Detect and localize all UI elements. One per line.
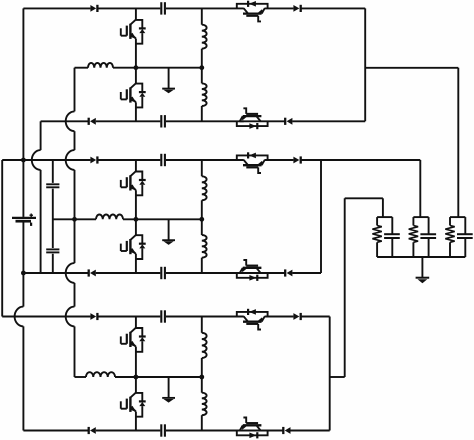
wire cell1 top rail end — [301, 7, 366, 9]
diode D1c (bottom rail left) — [90, 118, 96, 125]
resistor-capacitor branch 2 frame — [413, 216, 428, 218]
capacitor C3t (series, top rail) — [160, 310, 162, 322]
transistor Q22 (lower IGBT) — [130, 235, 136, 240]
wire cell3 mid left — [75, 376, 87, 378]
wire cell1 output tap horizontal — [365, 67, 458, 69]
capacitor C2t (series, top rail) — [160, 154, 162, 166]
wire cell2 IGBT leg middle — [135, 190, 137, 219]
transistor Q3b (horizontal IGBT, bottom rail) — [237, 431, 268, 436]
capacitor C1b (series, bottom rail) — [160, 115, 162, 127]
inductor L32 (lower) — [202, 393, 207, 416]
wire cell3 mid — [115, 376, 202, 378]
wire cell1 bottom rail end — [292, 120, 365, 122]
wire input cap column middle — [52, 189, 54, 248]
wire cell2 output tap vertical — [419, 160, 421, 217]
diode D2d (bottom rail right) — [287, 270, 293, 277]
inductor L3f (filter, horizontal) — [86, 372, 115, 377]
wire cell2 bottom rail end — [292, 272, 321, 274]
wire cell3 inductor leg upper lead — [201, 317, 203, 333]
transistor Q31 (upper IGBT) — [130, 328, 136, 333]
diode D1d (bottom rail right) — [287, 118, 293, 125]
diode D2c (bottom rail left) — [90, 270, 96, 277]
diode D3b (top rail right) — [293, 313, 299, 320]
wire DC bus (battery - down) — [22, 222, 24, 273]
wire cell3 bottom rail — [96, 430, 161, 432]
wire cell1 top rail — [97, 7, 160, 9]
wire input cap column upper — [52, 160, 54, 183]
ground cell1 — [168, 68, 170, 89]
transistor Q11 (upper IGBT) — [130, 20, 136, 25]
wire cell3 output tap vertical — [344, 198, 346, 377]
wire hop over cell3 top rail — [15, 307, 24, 327]
wire cell1 inductor leg lower lead — [201, 106, 203, 121]
wire cell1 inductor leg upper lead — [201, 8, 203, 24]
inductor L2f (filter, horizontal) — [96, 215, 123, 220]
capacitor Co3 plates — [457, 233, 473, 235]
wire cell3 top rail mid — [166, 316, 244, 318]
wire cell3 inductor leg mid — [201, 358, 203, 393]
wire cell1 bottom rail right — [240, 120, 286, 122]
transistor Q3t (horizontal IGBT, top rail) — [237, 312, 268, 317]
wire cell3 right edge — [329, 317, 331, 431]
wire hop over cell2 top rail — [32, 150, 41, 170]
wire cell1 IGBT leg upper — [135, 8, 137, 20]
wire cell1 bottom rail left — [41, 120, 89, 122]
wire cell1 top rail left — [23, 7, 90, 9]
ground load — [416, 277, 430, 279]
capacitor C-in-lower — [46, 248, 59, 250]
node mid-tie to cell2 mid — [72, 217, 77, 222]
capacitor C-in-upper — [46, 183, 59, 185]
wire cell1 bottom rail mid — [166, 120, 244, 122]
wire cell2 right edge — [320, 160, 322, 273]
wire cell3 bottom rail mid — [166, 430, 244, 432]
wire cell2 top rail mid — [166, 159, 244, 161]
wire cell3 inductor leg lower lead — [201, 415, 203, 430]
transistor Q1b (horizontal IGBT, bottom rail) — [237, 121, 268, 126]
wire cell2 bottom rail — [96, 272, 161, 274]
resistor-capacitor branch 3 frame — [450, 216, 465, 218]
diode D2a (top rail left) — [90, 157, 96, 164]
capacitor Co2 plates — [420, 233, 436, 235]
wire cell1 top rail mid — [166, 7, 244, 9]
wire cell3 top rail right — [265, 316, 294, 318]
wire cell2 bottom rail mid — [166, 272, 244, 274]
wire cell3 top rail left — [2, 316, 90, 318]
wire cell3 IGBT leg lower — [135, 412, 137, 431]
diode D1b (top rail right) — [293, 5, 299, 12]
capacitor Co1 plates — [384, 233, 400, 235]
wire cell2 inductor leg lower lead — [201, 258, 203, 273]
resistor-capacitor branch 1 frame — [377, 216, 392, 218]
transistor Q21 (upper IGBT) — [130, 171, 136, 176]
wire cell1 IGBT leg middle — [135, 39, 137, 68]
node cell2 bottom rail junction — [21, 271, 26, 276]
wire cell1 bottom rail — [96, 120, 161, 122]
wire cell1 mid left — [75, 67, 89, 69]
wire cell2 mid left — [53, 218, 96, 220]
wire cell3 IGBT leg upper — [135, 317, 137, 329]
wire DC bus left (top) — [22, 8, 24, 160]
wire cell3 bottom rail end — [291, 430, 330, 432]
diode D2b (top rail right) — [293, 157, 299, 164]
capacitor C3b (series, bottom rail) — [160, 424, 162, 436]
wire cell3 output tap link — [330, 376, 345, 378]
diode D3a (top rail left) — [90, 313, 96, 320]
ground cell2 — [168, 219, 170, 240]
wire cell2 top rail end — [301, 159, 421, 161]
wire cell2 IGBT leg upper — [135, 160, 137, 172]
wire cell1 output tap vertical — [457, 68, 459, 217]
node cell1 mid-inductor junction — [199, 65, 204, 70]
wire cell2 bottom rail left — [23, 272, 88, 274]
inductor L31 (upper) — [202, 333, 207, 358]
diode D1a (top rail left) — [90, 5, 96, 12]
wire input cap column lower — [52, 254, 54, 273]
wire cell2 bottom rail right — [240, 272, 286, 274]
wire far-left rail (cell2 top to cell3 top) — [1, 160, 3, 317]
wire cell3 bottom rail right — [240, 430, 284, 432]
node cell3 mid-IGBT junction — [134, 375, 139, 380]
wire cell2 top rail — [97, 159, 160, 161]
wire hop over cell2 top rail (mid-tie) — [66, 150, 75, 170]
diode D3d (bottom rail right) — [285, 427, 291, 434]
transistor Q2t (horizontal IGBT, top rail) — [237, 155, 268, 160]
transistor Q32 (lower IGBT) — [130, 393, 136, 398]
wire cell3 output branch feed — [382, 198, 384, 217]
inductor L22 (lower) — [202, 235, 207, 258]
wire cell1-bottom to cell2-bottom link — [40, 121, 42, 150]
wire load ground stem — [421, 257, 423, 277]
transistor Q2b (horizontal IGBT, bottom rail) — [237, 273, 268, 278]
wire cell3 output tap horizontal — [345, 197, 383, 199]
diode D3c (bottom rail left) — [90, 427, 96, 434]
inductor L1f (filter, horizontal) — [88, 63, 113, 68]
wire DC bus (to battery +) — [22, 160, 24, 217]
wire cell3 top rail — [97, 316, 160, 318]
wire hop over cell2 bottom rail — [66, 263, 75, 283]
node cell2 top rail junction — [21, 158, 26, 163]
capacitor C1t (series, top rail) — [160, 2, 162, 14]
wire cell1 right edge — [364, 8, 366, 121]
wire cell2 inductor leg upper lead — [201, 160, 203, 176]
wire mid-tie rail — [74, 68, 76, 112]
node cell2 mid-IGBT junction — [134, 217, 139, 222]
wire cell2 inductor leg mid — [201, 200, 203, 235]
node cell1 mid-IGBT junction — [134, 65, 139, 70]
wire cell3 top rail end — [301, 316, 330, 318]
inductor L21 (upper) — [202, 176, 207, 200]
node cell2 mid-inductor junction — [199, 217, 204, 222]
wire cell3 bottom rail left — [23, 430, 88, 432]
battery V1 — [12, 217, 36, 219]
transistor Q1t (horizontal IGBT, top rail) — [237, 4, 268, 9]
wire cell3 IGBT leg middle — [135, 347, 137, 377]
capacitor C2b (series, bottom rail) — [160, 267, 162, 279]
wire hop over cell3 top rail (mid-tie) — [66, 307, 75, 327]
wire hop over cell1 bottom rail — [66, 111, 75, 131]
inductor L11 (upper) — [202, 25, 207, 49]
node cell3 mid-inductor junction — [199, 375, 204, 380]
wire DC bus lower — [22, 273, 24, 307]
wire cell2 mid — [123, 218, 202, 220]
inductor L12 (lower) — [202, 83, 207, 106]
ground cell3 — [168, 377, 170, 398]
wire load bottom rail — [377, 256, 465, 258]
wire cell2 top rail right — [265, 159, 294, 161]
wire cell1 inductor leg mid — [201, 49, 203, 84]
wire cell2 IGBT leg lower — [135, 254, 137, 273]
transistor Q12 (lower IGBT) — [130, 83, 136, 88]
wire cell1 mid — [113, 67, 202, 69]
wire cell1 IGBT leg lower — [135, 102, 137, 121]
wire cell1 top rail right — [265, 7, 294, 9]
wire cell2 top rail left — [2, 159, 90, 161]
